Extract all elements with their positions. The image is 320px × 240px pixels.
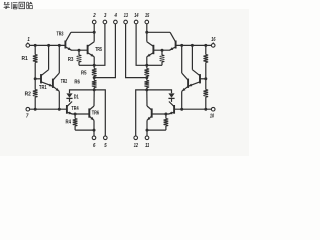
node bus-R2' junction (right): [204, 108, 207, 111]
wire TR'2 emitter (right): [181, 91, 183, 109]
wire top bus: [30, 44, 66, 46]
wire TR5 emitter: [93, 57, 95, 66]
wire TR5 collector: [93, 32, 95, 41]
wire pin3 vertical (right): [136, 24, 147, 66]
svg-text:R3: R3: [68, 57, 74, 63]
wire TR6 emitter: [93, 120, 95, 130]
wire TR'4 emitter to TR'6 base (right): [152, 113, 169, 115]
title kanji 価: [12, 2, 18, 9]
pin 14 label: [134, 13, 138, 19]
pin 15 terminal: [145, 20, 149, 24]
wire TR3 emitter to TR5 base: [71, 49, 88, 51]
node bus-R2 junction: [34, 108, 37, 111]
svg-text:3: 3: [104, 13, 106, 19]
pin 10 label: [210, 113, 214, 119]
label TR2: [61, 79, 67, 85]
transistor TR6: [89, 106, 94, 120]
pin 13 terminal: [124, 20, 128, 24]
wire pin5 branch: [94, 90, 105, 136]
transistor TR4: [67, 102, 72, 115]
pin 5 label: [104, 143, 107, 149]
resistor R2: [33, 79, 38, 109]
wire TR'3 collector to pin2 line (right): [147, 31, 170, 33]
resistor R1: [33, 45, 38, 78]
label R1: [22, 56, 28, 62]
wire pin3 vertical: [94, 24, 105, 66]
node TR'5 base - R3' junction (right): [161, 49, 164, 52]
pin 2 label: [92, 13, 95, 19]
wire TR'3 emitter to TR'5 base (right): [153, 49, 170, 51]
wire R4 bottom: [75, 129, 94, 131]
wire node to D1' (right): [147, 90, 172, 93]
resistor R1' (right): [204, 45, 209, 78]
wire TR'6 emitter (right): [146, 120, 148, 130]
svg-text:11: 11: [145, 143, 149, 149]
node TR'6 emitter junction (right): [146, 129, 149, 132]
svg-text:TR2: TR2: [61, 79, 67, 85]
pin 1 terminal: [26, 42, 30, 47]
svg-text:10: 10: [210, 113, 214, 119]
pin 2 terminal: [92, 20, 96, 24]
transistor TR'2 (right): [182, 73, 188, 91]
svg-text:1: 1: [27, 37, 29, 43]
wire TR2 collector: [58, 45, 60, 73]
svg-text:R5: R5: [81, 71, 87, 77]
pin 6 terminal: [92, 136, 96, 140]
title kanji 路: [27, 2, 33, 9]
pin 1 label: [27, 37, 29, 43]
node TR3 collector junction: [93, 31, 96, 34]
node bus-TR'2 emitter junction (right): [180, 108, 183, 111]
paper background: [0, 0, 249, 187]
svg-text:16: 16: [211, 37, 215, 43]
resistor R5' (right): [145, 65, 150, 77]
title kanji 等: [4, 2, 10, 9]
pin 12 terminal: [134, 136, 138, 140]
pin 5 terminal: [104, 136, 108, 140]
svg-text:12: 12: [134, 143, 138, 149]
resistor R5: [92, 65, 97, 77]
svg-text:6: 6: [93, 143, 95, 149]
node bus-TR'2 collector junction (right): [180, 44, 183, 47]
pin 13 label: [124, 13, 128, 19]
svg-text:2: 2: [92, 13, 95, 19]
label TR5: [95, 47, 102, 53]
svg-text:15: 15: [145, 13, 150, 19]
wire pin5 branch (right): [136, 90, 147, 136]
resistor R3: [77, 50, 82, 65]
label R3: [68, 57, 74, 63]
label R4: [66, 120, 72, 126]
node TR4 emitter - R4 junction: [74, 113, 77, 116]
pin 4 label: [114, 13, 117, 19]
wire top bus (right): [176, 44, 212, 46]
wire TR'1 collector (right): [191, 45, 193, 69]
wire TR1 base: [35, 78, 41, 80]
label TR4: [71, 106, 78, 112]
node R5'-R6' junction (right): [145, 76, 148, 79]
node bus-TR'1 collector junction (right): [191, 44, 194, 47]
node R6' bottom junction (right): [145, 88, 148, 91]
node bus-R1 junction: [34, 44, 37, 47]
svg-text:TR5: TR5: [95, 47, 102, 53]
node TR'5 emitter junction (right): [145, 64, 148, 67]
node R6 bottom junction: [93, 88, 96, 91]
label TR1: [39, 85, 47, 91]
wire TR3 collector to pin2 line: [71, 31, 94, 33]
wire R4' bottom (right): [147, 129, 166, 131]
resistor R6' (right): [145, 78, 150, 90]
wire pin2 vertical (right): [146, 24, 148, 33]
pin 11 label: [145, 143, 149, 149]
node TR'4 emitter - R4' junction (right): [164, 113, 167, 116]
title kanji 回: [19, 2, 25, 9]
wire TR1 collector: [48, 45, 50, 69]
svg-text:4: 4: [114, 13, 117, 19]
svg-text:13: 13: [124, 13, 128, 19]
pin 11 terminal: [145, 136, 149, 140]
transistor TR'4 (right): [169, 102, 174, 115]
wire D1 to TR4 collector: [69, 98, 71, 102]
label R5: [81, 71, 87, 77]
pin 3 label: [104, 13, 106, 19]
label TR3: [57, 32, 64, 38]
wire bottom bus (right): [174, 108, 212, 110]
resistor R4' (right): [164, 114, 169, 130]
diode D1' (right): [168, 93, 174, 98]
resistor R6: [92, 78, 97, 90]
scan tint: [0, 9, 249, 156]
svg-text:TR6: TR6: [92, 111, 99, 117]
wire TR4 emitter to TR6 base: [72, 113, 89, 115]
transistor TR1: [41, 70, 53, 87]
svg-text:TR1: TR1: [39, 85, 47, 91]
transistor TR'1 (right): [188, 70, 200, 87]
svg-text:R2: R2: [25, 92, 31, 98]
svg-text:D1: D1: [74, 94, 79, 100]
wire pin2 vertical: [93, 24, 95, 33]
pin 15 label: [145, 13, 150, 19]
node TR6 emitter junction: [93, 129, 96, 132]
pin 16 terminal: [211, 42, 215, 47]
wire TR'5 emitter (right): [146, 57, 148, 66]
node bus-TR2 emitter junction: [58, 108, 61, 111]
svg-text:TR4: TR4: [71, 106, 78, 112]
svg-text:R1: R1: [22, 56, 28, 62]
pin 10 terminal: [211, 107, 215, 111]
wire R3' bottom to node (right): [147, 64, 162, 66]
wire node to D1: [70, 90, 95, 93]
wire D1' to TR'4 collector (right): [171, 98, 173, 102]
transistor TR'5 (right): [147, 42, 154, 57]
node TR5 emitter junction: [93, 64, 96, 67]
svg-text:14: 14: [134, 13, 138, 19]
svg-text:R6: R6: [74, 80, 80, 86]
pin 3 terminal: [103, 20, 107, 24]
node bus-TR2 collector junction: [58, 44, 61, 47]
label R2: [25, 92, 31, 98]
wire pin4 vertical (right): [126, 24, 147, 78]
wire TR'6 collector (right): [146, 90, 148, 106]
diode D1: [66, 93, 72, 98]
label TR6: [92, 111, 99, 117]
wire TR'2 collector (right): [181, 45, 183, 73]
node R1'-TR'1 base junction (right): [204, 77, 207, 80]
svg-text:TR3: TR3: [57, 32, 64, 38]
node R5-R6 junction: [93, 76, 96, 79]
node TR5 base - R3 junction: [78, 49, 81, 52]
wire R3 bottom to node: [79, 64, 94, 66]
pin 14 terminal: [134, 20, 138, 24]
resistor R2' (right): [204, 79, 209, 109]
node bus-TR1 collector junction: [47, 44, 50, 47]
pin 6 label: [93, 143, 95, 149]
wire TR'1 base (right): [200, 78, 206, 80]
transistor TR'3 (right): [170, 32, 176, 50]
pin 12 label: [134, 143, 138, 149]
wire TR2 emitter: [58, 91, 60, 109]
pin 16 label: [211, 37, 215, 43]
transistor TR'6 (right): [147, 106, 152, 120]
wire pin4 vertical: [94, 24, 115, 78]
resistor R4: [73, 114, 78, 130]
svg-text:R4: R4: [66, 120, 72, 126]
label D1: [74, 94, 79, 100]
pin 7 label: [26, 113, 29, 119]
node bus-R1' junction (right): [204, 44, 207, 47]
transistor TR3: [65, 32, 71, 50]
wire bottom bus: [29, 108, 67, 110]
pin 7 terminal: [26, 107, 30, 111]
wire pin6 vertical: [93, 130, 95, 136]
transistor TR5: [88, 42, 95, 57]
wire pin6 vertical (right): [146, 130, 148, 136]
wire TR6 collector: [93, 90, 95, 106]
transistor TR2: [53, 73, 59, 91]
label R6: [74, 80, 80, 86]
pin 4 terminal: [114, 20, 118, 24]
node TR'3 collector junction (right): [145, 31, 148, 34]
resistor R3' (right): [160, 50, 165, 65]
wire TR'5 collector (right): [146, 32, 148, 41]
node R1-TR1 base junction: [34, 77, 37, 80]
